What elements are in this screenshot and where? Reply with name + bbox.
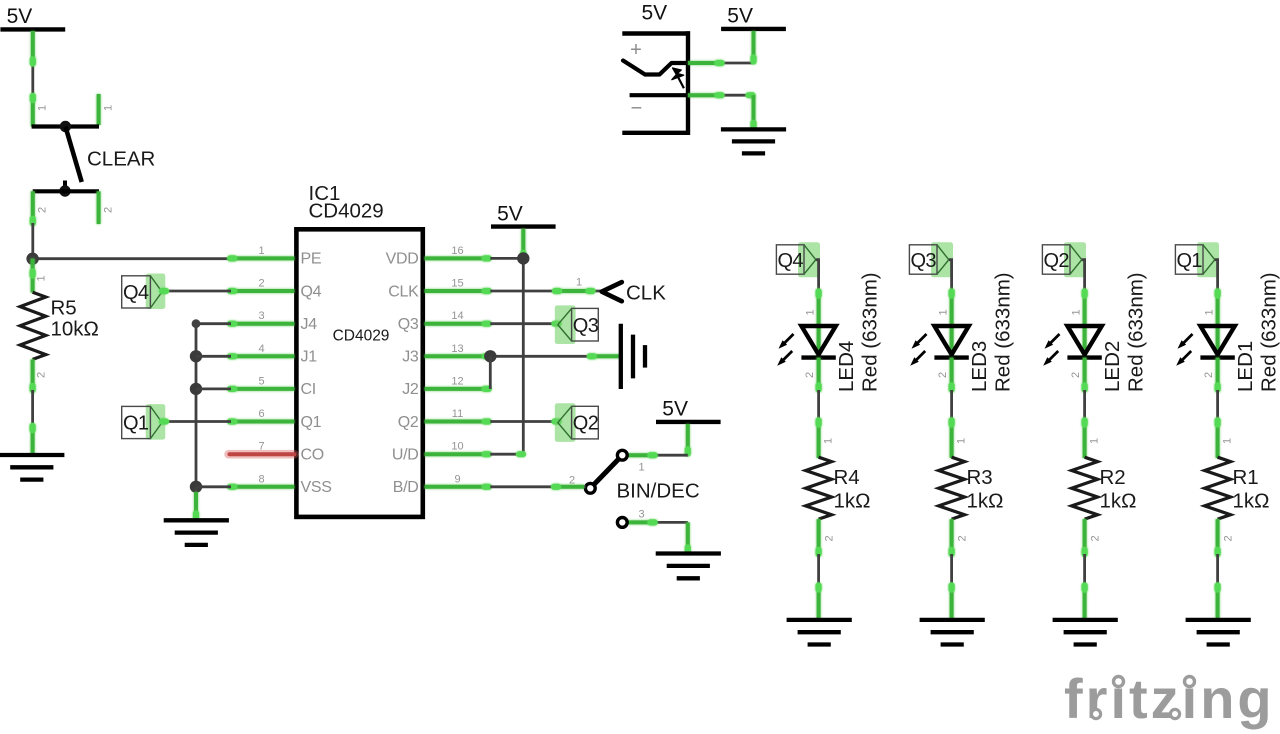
svg-text:3: 3 [639, 509, 645, 521]
net label Q4 (left) [122, 274, 166, 310]
svg-text:1: 1 [1070, 309, 1082, 315]
emission arrow 2 [777, 351, 792, 366]
svg-text:1: 1 [804, 309, 816, 315]
switch blade path [623, 61, 688, 75]
ground symbol GND3 (rotated, right of J3) [621, 324, 645, 389]
wire J3 to ground (rotated) [490, 355, 620, 358]
emission arrow 2 [1176, 351, 1191, 366]
svg-text:5V: 5V [497, 202, 523, 225]
IC1 left pin 4 J1 [229, 354, 295, 358]
svg-text:7: 7 [258, 441, 264, 453]
wire switch pin1 to 5V [628, 454, 688, 457]
svg-text:5V: 5V [727, 5, 753, 28]
svg-text:CD4029: CD4029 [333, 328, 390, 345]
svg-text:LED1: LED1 [1234, 341, 1257, 392]
switch S2 BIN/DEC (SPDT) [569, 450, 700, 527]
resistor R4 1k [806, 457, 871, 519]
svg-text:1: 1 [103, 105, 115, 111]
pin 2 circle (common) [585, 483, 595, 493]
component S3 power switch (top middle) [622, 31, 690, 135]
svg-text:11: 11 [452, 408, 463, 420]
svg-text:1: 1 [1203, 309, 1215, 315]
wire R5 to ground [31, 390, 34, 428]
svg-text:+: + [630, 39, 642, 61]
svg-text:Red (633nm): Red (633nm) [992, 272, 1015, 392]
net label Q2 (right) [490, 403, 598, 442]
ground symbol (column R2) [1053, 620, 1118, 645]
junction bus/VSS [190, 481, 231, 493]
wire B/D to switch common [490, 485, 585, 488]
svg-text:15: 15 [451, 278, 463, 290]
wire R3 to ground [950, 519, 954, 620]
svg-text:14: 14 [451, 310, 463, 322]
wire pin3 corner down to GND4 [686, 522, 689, 553]
wire 5V down to switch pin 1 [686, 424, 690, 455]
svg-text:5V: 5V [7, 5, 33, 28]
wire Q4 label to LED4 [816, 260, 819, 327]
svg-text:CO: CO [301, 447, 324, 464]
svg-text:J3: J3 [402, 349, 419, 366]
fritzing watermark logo [1064, 667, 1275, 730]
svg-text:Q2: Q2 [1043, 250, 1069, 272]
wire bus vertical (J4/J1/CI/VSS tie) [195, 324, 198, 487]
svg-text:Q3: Q3 [910, 250, 936, 272]
svg-text:1kΩ: 1kΩ [1100, 490, 1137, 513]
emission arrow 2 [910, 351, 925, 366]
ground symbol (column R1) [1186, 620, 1251, 645]
svg-text:1kΩ: 1kΩ [834, 490, 871, 513]
svg-text:R1: R1 [1233, 466, 1259, 489]
body right side [686, 31, 690, 135]
wire LED2 to R2 [1083, 358, 1087, 458]
svg-text:Q3: Q3 [398, 316, 419, 333]
svg-text:16: 16 [451, 245, 463, 257]
svg-text:2: 2 [1223, 535, 1235, 541]
body bottom bar [622, 131, 690, 135]
svg-text:10: 10 [451, 441, 463, 453]
LED LED4 [777, 272, 881, 392]
resistor R2 1k [1072, 457, 1137, 519]
svg-text:2: 2 [36, 372, 48, 378]
ground symbol GND2 (below bus) [164, 487, 229, 545]
svg-text:1kΩ: 1kΩ [967, 490, 1004, 513]
svg-text:LED4: LED4 [835, 341, 858, 392]
junction bus/CI [190, 383, 231, 395]
switch blade [65, 127, 81, 183]
wire 5V down to switch wire [752, 31, 756, 63]
wire R2 to ground [1083, 519, 1087, 620]
node A junction dot [26, 253, 38, 265]
svg-text:R4: R4 [834, 466, 860, 489]
wire Q2 label to LED2 [1082, 260, 1085, 327]
wire down to GND5 [752, 95, 756, 129]
pin 1 circle [617, 450, 627, 460]
power 5V symbol (top right) [721, 5, 786, 29]
wire node A to IC pin PE [33, 257, 231, 260]
IC1 right pin 13 J3 [425, 354, 491, 358]
svg-text:Q1: Q1 [1176, 250, 1202, 272]
pin 3 circle [617, 518, 627, 528]
emission arrow 1 [912, 334, 927, 349]
svg-text:2: 2 [957, 535, 969, 541]
svg-text:1kΩ: 1kΩ [1233, 490, 1270, 513]
svg-text:2: 2 [103, 207, 115, 213]
switch blade [590, 455, 622, 488]
svg-text:U/D: U/D [392, 447, 419, 464]
svg-text:B/D: B/D [393, 479, 419, 496]
IC1 right pin 9 B/D [425, 485, 491, 489]
svg-text:CLEAR: CLEAR [87, 148, 155, 171]
resistor R3 1k [939, 457, 1004, 519]
svg-text:Q1: Q1 [123, 413, 149, 435]
svg-text:R3: R3 [967, 466, 993, 489]
wire Q1 label to LED1 [1215, 260, 1218, 327]
wire Q1 label to IC pin Q1 [162, 420, 231, 423]
ground symbol GND4 (BIN/DEC) [656, 554, 721, 579]
wire LED4 to R4 [817, 358, 821, 458]
svg-text:LED2: LED2 [1101, 341, 1124, 392]
svg-text:5: 5 [258, 375, 264, 387]
power 5V symbol (above IC) [491, 202, 556, 226]
svg-text:−: − [631, 98, 643, 120]
svg-text:1: 1 [37, 105, 49, 111]
svg-text:2: 2 [1070, 372, 1082, 378]
svg-text:1: 1 [956, 438, 968, 444]
net label Q3 (right) [490, 305, 598, 344]
svg-text:2: 2 [1203, 372, 1215, 378]
resistor R5 10k [20, 259, 99, 392]
IC1 right pin 12 J2 [425, 387, 491, 391]
LED LED3 [910, 272, 1014, 392]
svg-text:Q3: Q3 [573, 315, 599, 337]
svg-text:2: 2 [1090, 535, 1102, 541]
op-amp/counter IC1 CD4029 body [296, 229, 422, 517]
svg-text:2: 2 [569, 475, 575, 487]
LED LED2 [1043, 272, 1147, 392]
IC1 left pin 1 PE [229, 256, 295, 260]
wire switch to node A [31, 223, 34, 259]
svg-text:R2: R2 [1100, 466, 1126, 489]
svg-text:J2: J2 [402, 381, 419, 398]
body top bar [622, 31, 690, 35]
svg-text:1: 1 [36, 275, 48, 281]
svg-text:9: 9 [454, 473, 460, 485]
emission arrow 1 [1045, 334, 1060, 349]
connector CLK (chevron) [490, 277, 666, 305]
lightning bolt [672, 68, 684, 88]
svg-text:1: 1 [1089, 438, 1101, 444]
IC1 right pin 11 Q2 [425, 420, 491, 424]
net label Q1 (LED column) [1175, 242, 1219, 277]
wire R1 to ground [1216, 519, 1220, 620]
wire switch pin3 to ground [628, 521, 688, 524]
wire bus to J4 [192, 319, 231, 328]
wire switch top terminal to 5V [688, 62, 754, 65]
svg-text:LED3: LED3 [968, 341, 991, 392]
minus terminal line [630, 93, 688, 97]
ground symbol (column R4) [787, 620, 852, 645]
power 5V supply symbol (top left) [0, 5, 65, 29]
svg-text:fritzing: fritzing [1064, 667, 1275, 730]
svg-text:CD4029: CD4029 [309, 200, 384, 223]
svg-text:2: 2 [937, 372, 949, 378]
svg-text:1: 1 [1222, 438, 1234, 444]
svg-text:2: 2 [824, 535, 836, 541]
emission arrow 1 [779, 334, 794, 349]
svg-text:1: 1 [576, 277, 582, 289]
svg-text:1: 1 [639, 462, 645, 474]
switch top contact bar [32, 124, 99, 128]
emission arrow 2 [1043, 351, 1058, 366]
wire J3 junction down to J2 [489, 356, 492, 389]
svg-text:10kΩ: 10kΩ [51, 318, 99, 341]
svg-text:PE: PE [301, 251, 322, 268]
wire 5V bus down to U/D [490, 258, 523, 454]
junction dot J3 [484, 350, 496, 362]
wire 5V to VDD junction [521, 229, 525, 259]
ground symbol GND1 (below R5) [0, 424, 64, 480]
junction bus/J1 [190, 350, 231, 362]
svg-text:13: 13 [451, 343, 463, 355]
svg-text:5V: 5V [642, 2, 668, 25]
svg-text:Q1: Q1 [301, 414, 322, 431]
svg-text:1: 1 [937, 309, 949, 315]
svg-text:6: 6 [258, 408, 264, 420]
svg-text:5V: 5V [662, 398, 688, 421]
svg-text:2: 2 [804, 372, 816, 378]
wire R4 to ground [817, 519, 821, 620]
svg-text:Red (633nm): Red (633nm) [1125, 272, 1148, 392]
IC1 left pin 3 J4 [229, 322, 295, 326]
LED LED1 [1176, 272, 1280, 392]
net label Q2 (LED column) [1042, 242, 1086, 277]
svg-text:CI: CI [301, 381, 316, 398]
svg-text:CLK: CLK [388, 283, 419, 300]
IC1 left pin 8 VSS [229, 485, 295, 489]
IC1 left pin 2 Q4 [229, 289, 295, 293]
svg-text:J4: J4 [301, 316, 318, 333]
svg-text:Q4: Q4 [777, 250, 803, 272]
wire switch bottom terminal to GND5 [688, 94, 754, 97]
junction dot VDD/5V [517, 252, 529, 264]
net label Q1 (left) [122, 404, 166, 440]
IC1 pin 7 CO (red unconnected) [229, 450, 295, 459]
svg-text:R5: R5 [51, 297, 77, 320]
svg-text:J1: J1 [301, 349, 318, 366]
switch S1 CLEAR (DPST pushbutton) [32, 94, 156, 225]
wire LED1 to R1 [1216, 358, 1220, 458]
svg-text:CLK: CLK [626, 281, 666, 304]
switch bottom contact bar [33, 189, 99, 193]
svg-text:BIN/DEC: BIN/DEC [617, 480, 700, 503]
wire VDD to junction [490, 257, 523, 260]
switch actuator tick [63, 181, 67, 192]
IC1 right pin 10 U/D [425, 452, 491, 456]
svg-text:2: 2 [37, 207, 49, 213]
IC1 right pin 15 CLK [425, 289, 491, 293]
svg-text:Red (633nm): Red (633nm) [1258, 272, 1280, 392]
svg-text:8: 8 [258, 473, 264, 485]
ground symbol GND5 (top right) [721, 129, 786, 153]
net label Q4 (LED column) [776, 242, 820, 277]
svg-text:Q4: Q4 [123, 282, 149, 304]
svg-text:Red (633nm): Red (633nm) [859, 272, 882, 392]
svg-text:Q2: Q2 [573, 413, 599, 435]
svg-text:Q4: Q4 [301, 283, 322, 300]
svg-text:4: 4 [258, 343, 264, 355]
svg-text:12: 12 [451, 375, 463, 387]
power 5V symbol (BIN/DEC) [656, 398, 721, 422]
IC1 left pin 5 CI [229, 387, 295, 391]
IC1 right pin 16 VDD [425, 256, 491, 260]
net label Q3 (LED column) [909, 242, 953, 277]
wire LED3 to R3 [950, 358, 954, 458]
svg-text:3: 3 [258, 310, 264, 322]
IC1 left pin 6 Q1 [229, 420, 295, 424]
svg-text:2: 2 [258, 278, 264, 290]
wire Q4 label to IC pin Q4 [162, 290, 231, 293]
svg-text:VDD: VDD [386, 251, 419, 268]
IC1 right pin 14 Q3 [425, 322, 491, 326]
svg-text:1: 1 [258, 245, 264, 257]
svg-text:Q2: Q2 [398, 414, 419, 431]
wire Q3 label to LED3 [949, 260, 952, 327]
emission arrow 1 [1178, 334, 1193, 349]
wire 5V to switch S1 pin 1 [31, 31, 34, 95]
resistor R1 1k [1205, 457, 1270, 519]
svg-text:1: 1 [823, 438, 835, 444]
svg-text:VSS: VSS [301, 479, 332, 496]
ground symbol (column R3) [920, 620, 985, 645]
